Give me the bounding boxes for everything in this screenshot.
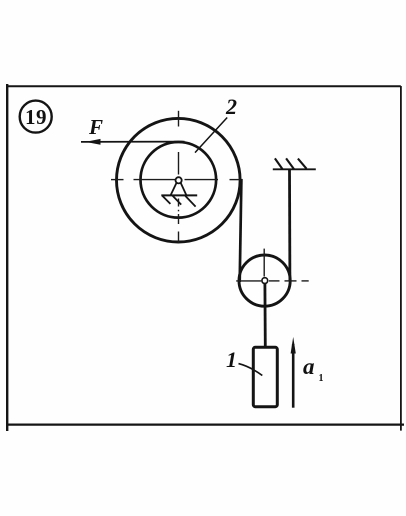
arrowhead of force F (points left) bbox=[86, 139, 101, 145]
label 19 bbox=[19, 105, 53, 130]
small pulley vertical centerline bbox=[263, 249, 265, 277]
small pulley horizontal centerline (dash-dot) bbox=[236, 280, 309, 282]
label a1 bbox=[303, 354, 324, 384]
border frame bbox=[6, 84, 404, 431]
small movable pulley bbox=[239, 255, 290, 306]
acceleration arrow a1 (upward) bbox=[292, 344, 295, 408]
leader line for label 2 bbox=[195, 118, 227, 153]
wire: link from small pulley axle down to block bbox=[263, 284, 266, 348]
fixed support triangle under axle bbox=[171, 183, 187, 196]
ceiling attachment line bbox=[273, 168, 316, 170]
wire: force line of F tangent to inner pulley bbox=[81, 141, 185, 143]
big pulley horizontal centerline (dash-dot) bbox=[111, 179, 243, 181]
ceiling hatching bbox=[275, 158, 307, 169]
label F bbox=[89, 115, 103, 140]
support hatching bbox=[162, 196, 195, 207]
big pulley vertical centerline (dash-dot) bbox=[178, 111, 180, 243]
wire: rope from big pulley rim down to small pulley bbox=[240, 179, 242, 282]
label 2 bbox=[226, 94, 237, 120]
label 1 bbox=[226, 347, 237, 373]
block 1 (load) bbox=[253, 347, 277, 406]
leader line for label 1 bbox=[239, 364, 263, 376]
big pulley 2 outer circle bbox=[117, 118, 241, 242]
problem number badge circle 19 bbox=[20, 101, 52, 133]
pin joint at big pulley axle bbox=[176, 177, 182, 183]
pin joint at small pulley axle bbox=[262, 278, 268, 284]
wire: rope from ceiling down to small pulley bbox=[288, 169, 291, 281]
big pulley 2 inner circle bbox=[141, 142, 217, 218]
support base line bbox=[161, 194, 197, 196]
